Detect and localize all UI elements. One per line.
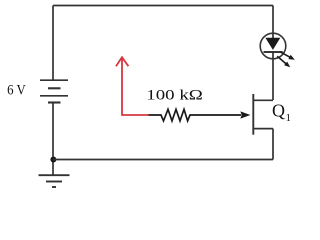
LED D1 circle (260, 33, 286, 59)
transistor Q1 channel bar (252, 94, 254, 135)
gate arrowhead into Q1 (240, 111, 250, 118)
resistor R1 100 kOhm (149, 109, 242, 121)
node junction dot (50, 157, 56, 163)
transistor Q1 source stub (253, 128, 273, 130)
svg-text:100 kΩ: 100 kΩ (146, 88, 203, 104)
LED D1 cathode bar (264, 51, 283, 53)
control voltage red arrow shaft (122, 58, 149, 115)
wire top rail (53, 5, 273, 7)
wire LED cathode to drain (272, 52, 274, 100)
battery B1 (6 V) (40, 80, 68, 102)
svg-text:6 V: 6 V (7, 83, 26, 99)
wire source drop (272, 129, 274, 160)
LED light arrow upper (280, 52, 295, 60)
svg-text:1: 1 (286, 112, 292, 124)
wire LED anode drop (272, 6, 274, 39)
svg-text:Q: Q (272, 101, 285, 121)
transistor Q1 drain stub (253, 99, 273, 101)
LED light arrow lower (277, 56, 290, 67)
wire left rail upper (52, 6, 54, 81)
LED D1 triangle (265, 38, 280, 50)
ground (39, 175, 70, 187)
wire left rail lower (52, 103, 54, 176)
control voltage red arrowhead (116, 57, 128, 66)
wire bottom rail (53, 159, 273, 161)
